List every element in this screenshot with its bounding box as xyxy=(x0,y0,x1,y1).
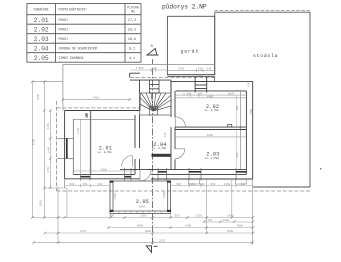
svg-text:540: 540 xyxy=(207,68,212,71)
svg-text:3170: 3170 xyxy=(80,230,87,233)
svg-text:POKOJ: POKOJ xyxy=(59,37,69,41)
svg-text:4410: 4410 xyxy=(93,97,100,100)
svg-text:1300: 1300 xyxy=(114,192,117,199)
svg-text:2850: 2850 xyxy=(140,215,147,218)
svg-text:950: 950 xyxy=(211,183,216,186)
svg-text:1950: 1950 xyxy=(189,183,196,186)
svg-text:800: 800 xyxy=(208,219,213,222)
svg-text:7160: 7160 xyxy=(250,108,253,115)
svg-text:ZIMNÍ ZAHRADA: ZIMNÍ ZAHRADA xyxy=(59,56,84,60)
svg-text:1060: 1060 xyxy=(223,219,230,222)
svg-text:4480: 4480 xyxy=(207,134,214,137)
svg-text:půdorys 2.NP: půdorys 2.NP xyxy=(162,4,207,11)
svg-text:POKOJ: POKOJ xyxy=(59,28,69,32)
svg-text:4,1: 4,1 xyxy=(129,57,135,61)
svg-text:900: 900 xyxy=(236,152,239,157)
svg-text:4600: 4600 xyxy=(137,225,144,228)
svg-text:3010: 3010 xyxy=(40,199,43,206)
svg-text:740: 740 xyxy=(164,132,167,137)
svg-text:1740: 1740 xyxy=(47,166,50,173)
svg-text:870: 870 xyxy=(198,92,203,95)
svg-text:600: 600 xyxy=(176,183,181,186)
svg-text:130: 130 xyxy=(85,113,89,118)
svg-text:4500: 4500 xyxy=(163,191,166,198)
svg-text:5720: 5720 xyxy=(33,138,36,145)
svg-text:2.03: 2.03 xyxy=(34,36,49,43)
svg-text:1450: 1450 xyxy=(224,183,231,186)
svg-text:17,2: 17,2 xyxy=(128,19,136,23)
svg-text:POKOJ: POKOJ xyxy=(59,18,69,22)
svg-text:600: 600 xyxy=(98,183,103,186)
svg-text:1 500: 1 500 xyxy=(136,67,144,70)
svg-text:4050: 4050 xyxy=(139,206,146,209)
svg-text:950: 950 xyxy=(175,215,180,218)
svg-text:410: 410 xyxy=(198,68,203,71)
svg-text:1740: 1740 xyxy=(77,127,80,134)
svg-text:CHODBA SE SCHODIŠTĚM: CHODBA SE SCHODIŠTĚM xyxy=(59,47,97,51)
svg-text:470: 470 xyxy=(152,67,157,70)
svg-text:23,2: 23,2 xyxy=(128,29,136,33)
svg-text:4480: 4480 xyxy=(207,96,214,99)
svg-text:1590: 1590 xyxy=(37,93,40,100)
svg-text:900: 900 xyxy=(236,105,239,110)
svg-text:M2: M2 xyxy=(131,10,135,14)
svg-text:4600: 4600 xyxy=(145,230,152,233)
svg-text:2.05: 2.05 xyxy=(34,55,49,62)
svg-text:2625: 2625 xyxy=(159,240,166,243)
svg-text:POPIS MÍSTNOSTI: POPIS MÍSTNOSTI xyxy=(59,7,87,11)
svg-text:5200: 5200 xyxy=(227,230,234,233)
svg-text:sv. 2,70m: sv. 2,70m xyxy=(204,109,218,112)
svg-text:2.05: 2.05 xyxy=(136,199,149,205)
svg-text:600: 600 xyxy=(241,183,246,186)
svg-text:2.02: 2.02 xyxy=(34,27,49,34)
svg-text:1450: 1450 xyxy=(227,215,234,218)
svg-text:1410: 1410 xyxy=(47,122,50,129)
svg-text:sv. 2,70m: sv. 2,70m xyxy=(205,157,219,160)
svg-text:A': A' xyxy=(151,44,154,48)
svg-text:4200: 4200 xyxy=(101,168,108,171)
svg-text:sv. 2,70m: sv. 2,70m xyxy=(152,147,166,150)
svg-text:2675: 2675 xyxy=(228,92,235,95)
svg-text:1650: 1650 xyxy=(196,215,203,218)
svg-text:950: 950 xyxy=(83,183,88,186)
svg-text:600: 600 xyxy=(110,215,115,218)
svg-text:2.04: 2.04 xyxy=(34,46,49,53)
svg-text:8,1: 8,1 xyxy=(129,48,135,52)
svg-text:garáž: garáž xyxy=(181,49,200,55)
svg-text:600: 600 xyxy=(70,183,75,186)
svg-text:1400: 1400 xyxy=(185,225,192,228)
svg-text:16,9: 16,9 xyxy=(128,38,136,42)
svg-text:410: 410 xyxy=(247,82,250,87)
svg-text:3750: 3750 xyxy=(178,68,185,71)
svg-text:860: 860 xyxy=(198,74,203,77)
svg-text:600: 600 xyxy=(200,183,205,186)
svg-text:sv. 2,70m: sv. 2,70m xyxy=(97,151,111,154)
svg-text:OZNAČENÍ: OZNAČENÍ xyxy=(34,7,49,11)
svg-text:5000: 5000 xyxy=(237,225,244,228)
svg-text:stodola: stodola xyxy=(253,53,278,59)
svg-text:1440: 1440 xyxy=(47,146,50,153)
svg-text:1 100: 1 100 xyxy=(183,92,191,95)
svg-text:2.01: 2.01 xyxy=(34,17,49,24)
